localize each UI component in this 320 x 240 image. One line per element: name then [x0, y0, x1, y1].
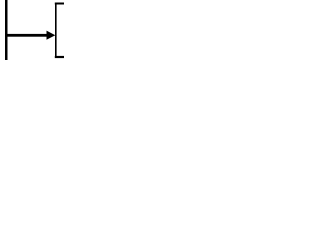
block (partial rectangle, extends off right edge): top edge [55, 3, 64, 5]
block left edge [55, 3, 57, 59]
wire: horizontal connection to arrow [5, 34, 47, 37]
arrowhead pointing right into block [47, 31, 56, 40]
wire: left vertical bus line [5, 0, 8, 60]
block bottom edge [55, 56, 64, 58]
